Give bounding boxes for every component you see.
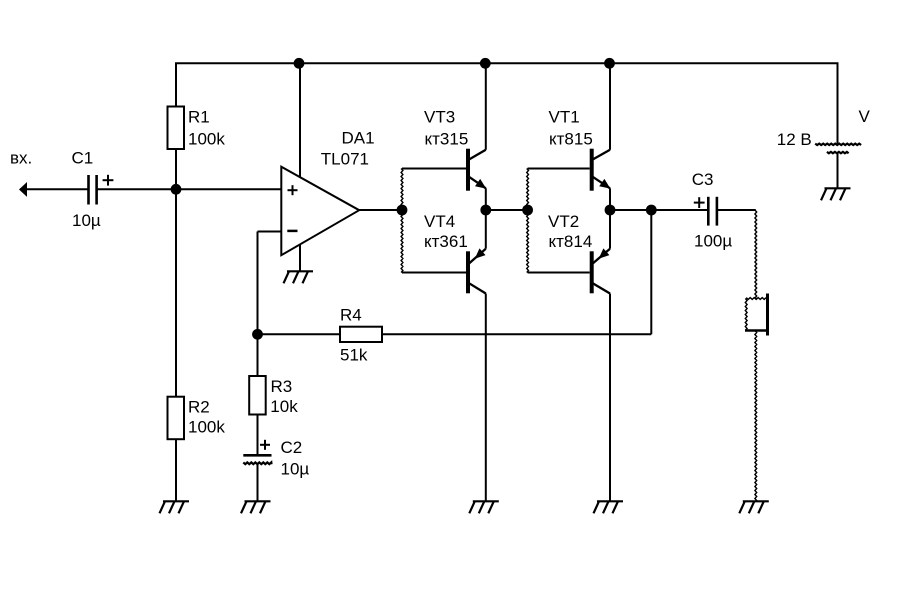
wire inverting input down to R3/R4 node <box>257 232 259 377</box>
wire R3 bottom to C2 <box>257 415 259 456</box>
wire R1 bottom to input node <box>175 149 177 189</box>
svg-text:10k: 10k <box>270 397 298 416</box>
wire feedback column up to output node <box>650 210 652 334</box>
capacitor C3 <box>694 197 717 226</box>
resistor R3 <box>249 376 266 415</box>
ground VT4 collector <box>469 501 499 513</box>
ground VT2 collector <box>594 501 624 513</box>
capacitor C1 <box>89 175 114 205</box>
svg-text:VT3: VT3 <box>424 108 455 127</box>
wire op-amp output to base node <box>359 209 402 211</box>
node rail op-amp V+ junction <box>294 58 305 69</box>
svg-text:кт815: кт815 <box>549 130 593 149</box>
svg-text:R4: R4 <box>340 305 362 324</box>
node input/R1/R2 junction <box>171 184 182 195</box>
wire feedback node to R4 <box>258 333 341 335</box>
transistor VT4 (PNP KT361) <box>468 248 486 293</box>
loudspeaker load <box>745 294 768 336</box>
ground op-amp <box>284 271 314 283</box>
svg-text:V: V <box>859 107 871 126</box>
wire VT4 base <box>402 272 466 274</box>
node op-amp output junction <box>397 205 408 216</box>
wire speaker top (zigzag) <box>755 210 757 299</box>
svg-text:VT4: VT4 <box>424 212 455 231</box>
svg-text:кт814: кт814 <box>549 232 593 251</box>
wire R4 to feedback column <box>382 333 651 335</box>
wire op-amp V- pin to ground <box>299 244 301 271</box>
wire VT4 collector to ground <box>485 294 487 502</box>
wire VT3/VT4 emitters to VT1/VT2 base rail <box>486 209 528 211</box>
transistor VT1 (NPN KT815) <box>592 149 611 191</box>
op-amp DA1 TL071 <box>281 167 359 256</box>
wire VT2 base <box>528 272 590 274</box>
resistor R2 <box>168 397 185 440</box>
wire C2 bottom to ground <box>257 464 259 502</box>
svg-text:10µ: 10µ <box>72 211 101 230</box>
wire VT2 emitter up to node <box>609 210 611 249</box>
wire C3 to speaker corner <box>718 209 756 211</box>
svg-text:10µ: 10µ <box>281 459 310 478</box>
wire input arrow to C1 <box>20 188 88 190</box>
svg-text:VT1: VT1 <box>549 108 580 127</box>
wire op-amp inverting input left <box>258 231 282 233</box>
ground speaker <box>739 501 769 513</box>
wire VT4 emitter up to node <box>485 210 487 249</box>
wire VT3 base <box>402 168 466 170</box>
svg-text:кт361: кт361 <box>424 232 468 251</box>
svg-text:12 В: 12 В <box>777 130 812 149</box>
node rail VT1 collector junction <box>604 58 615 69</box>
battery V 12V <box>815 144 861 154</box>
node VT1/VT2 base rail junction <box>522 205 533 216</box>
svg-text:C1: C1 <box>72 149 94 168</box>
resistor R4 <box>340 327 382 342</box>
svg-text:100k: 100k <box>188 418 225 437</box>
wire VT3 emitter down to node <box>485 188 487 210</box>
wire R2 bottom to ground <box>175 439 177 502</box>
node VT3/VT4 emitter junction <box>480 205 491 216</box>
ground battery <box>821 188 851 200</box>
node R3/R4/inverting-input junction <box>252 329 263 340</box>
capacitor C2 <box>243 440 271 464</box>
node base rail VT1/VT2 (zigzag) <box>527 169 529 273</box>
input arrow <box>19 182 27 197</box>
wire top supply rail <box>175 62 839 64</box>
wire VT1 base <box>528 168 590 170</box>
wire op-amp V+ pin to rail <box>299 63 301 177</box>
node VT1/VT2 emitter junction <box>605 205 616 216</box>
svg-text:TL071: TL071 <box>321 149 369 168</box>
svg-text:VT2: VT2 <box>548 212 579 231</box>
node rail VT3 collector junction <box>480 58 491 69</box>
wire speaker bottom to ground (zigzag) <box>755 331 757 502</box>
svg-text:51k: 51k <box>340 345 368 364</box>
wire output node to C3 <box>651 209 707 211</box>
svg-text:C3: C3 <box>692 170 714 189</box>
wire R1 top to rail <box>175 63 177 106</box>
wire VT1 collector to rail <box>609 63 611 150</box>
svg-text:100k: 100k <box>188 130 225 149</box>
wire VT3 collector to rail <box>485 63 487 150</box>
wire battery to ground <box>837 154 839 189</box>
svg-text:100µ: 100µ <box>694 231 732 250</box>
wire VT1/VT2 emitters to output node <box>610 209 651 211</box>
svg-text:кт315: кт315 <box>425 130 469 149</box>
svg-text:R1: R1 <box>188 108 210 127</box>
ground C2 <box>241 501 271 513</box>
node base rail VT3/VT4 (zigzag) <box>401 169 403 273</box>
svg-text:вх.: вх. <box>10 149 32 168</box>
svg-text:R3: R3 <box>271 377 293 396</box>
node output/feedback junction <box>646 205 657 216</box>
svg-text:R2: R2 <box>188 398 210 417</box>
svg-text:DA1: DA1 <box>342 129 375 148</box>
resistor R1 <box>168 107 185 150</box>
wire C1 to op-amp + input (through node) <box>98 188 282 190</box>
svg-text:C2: C2 <box>281 438 303 457</box>
transistor VT3 (NPN KT315) <box>468 149 486 191</box>
wire R2 top from input node <box>175 189 177 396</box>
wire VT1 emitter down to node <box>609 188 611 210</box>
wire VT2 collector to ground <box>609 294 611 502</box>
transistor VT2 (PNP KT814) <box>592 248 610 293</box>
wire rail to battery <box>837 63 839 143</box>
ground R2 <box>160 501 190 513</box>
